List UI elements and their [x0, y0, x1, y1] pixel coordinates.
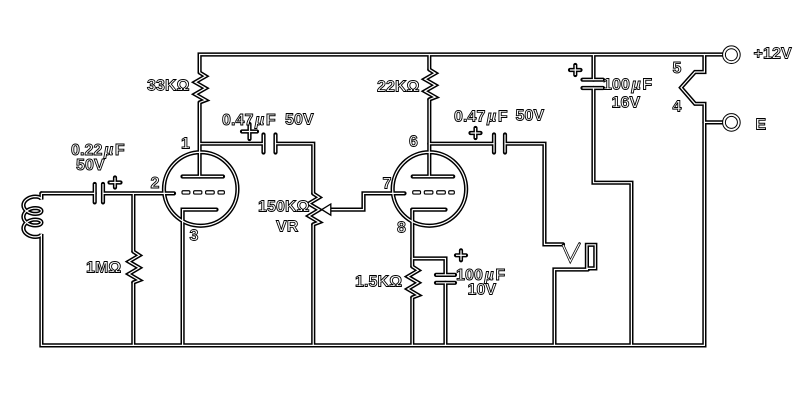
- svg-text:1: 1: [181, 136, 190, 153]
- svg-text:4: 4: [673, 99, 682, 116]
- svg-text:0.47µF: 0.47µF: [454, 109, 508, 126]
- svg-text:33KΩ: 33KΩ: [147, 78, 190, 95]
- svg-text:50V: 50V: [516, 108, 545, 125]
- svg-text:8: 8: [397, 220, 406, 237]
- svg-text:VR: VR: [276, 219, 299, 236]
- svg-text:3: 3: [190, 228, 199, 245]
- svg-text:0.47µF: 0.47µF: [222, 112, 276, 129]
- svg-text:16V: 16V: [612, 95, 641, 112]
- svg-text:100µF: 100µF: [603, 77, 652, 94]
- svg-text:5: 5: [673, 60, 682, 77]
- svg-text:22KΩ: 22KΩ: [377, 79, 420, 96]
- svg-text:150KΩ: 150KΩ: [258, 199, 310, 216]
- svg-text:1MΩ: 1MΩ: [86, 260, 121, 277]
- svg-text:2: 2: [151, 175, 160, 192]
- svg-text:10V: 10V: [468, 281, 497, 298]
- svg-text:6: 6: [409, 134, 418, 151]
- svg-text:50V: 50V: [76, 157, 105, 174]
- svg-text:7: 7: [383, 176, 392, 193]
- svg-text:50V: 50V: [285, 112, 314, 129]
- svg-text:1.5KΩ: 1.5KΩ: [355, 274, 402, 291]
- svg-text:+12V: +12V: [754, 46, 792, 63]
- svg-text:E: E: [756, 117, 767, 134]
